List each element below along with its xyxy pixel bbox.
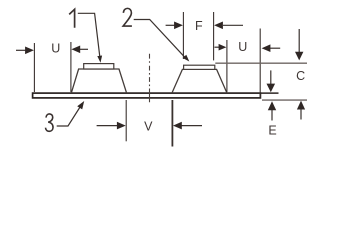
callout 1 : leader line	[78, 13, 100, 57]
dimension U (right) : extension lines	[226, 40, 228, 92]
callout 2 : digit	[123, 8, 132, 26]
dimension U (left) : right arrow	[80, 48, 88, 50]
package 2 lid	[184, 65, 215, 69]
dimension F : extension lines	[182, 12, 184, 59]
bar top extension line (right)	[260, 92, 278, 94]
carrier bar (item 3)	[33, 93, 261, 98]
C top reference line (lid top level)	[215, 62, 307, 64]
callout 2 : leader line	[134, 20, 186, 58]
dimension U (right) : left arrow	[215, 46, 220, 48]
dimension F : right arrow	[223, 24, 243, 26]
centerline (dash-dot) between packages	[149, 54, 151, 103]
svg-text:U: U	[238, 40, 247, 54]
dimension E : up arrow	[271, 110, 273, 121]
dimension V : right arrow	[182, 125, 203, 127]
callout 3 : digit	[46, 114, 54, 131]
dimension F : left arrow	[166, 24, 175, 26]
callout 1 : digit	[69, 9, 74, 28]
svg-text:C: C	[296, 69, 305, 83]
dimension U (left) : left arrow	[16, 49, 26, 51]
dimension V : left arrow	[97, 125, 117, 127]
svg-text:E: E	[268, 124, 276, 138]
bottom reference line (below bar)	[262, 99, 307, 101]
dimension C : up arrow	[300, 109, 302, 120]
svg-text:F: F	[195, 19, 203, 33]
dimension U (left) : extension lines	[33, 43, 35, 92]
callout 3 : leader line	[57, 106, 81, 127]
dimension V : extension lines	[125, 100, 127, 141]
package 1 lid	[84, 64, 114, 69]
svg-text:U: U	[51, 42, 60, 56]
svg-text:V: V	[144, 119, 153, 133]
package body 1 (trapezoid)	[71, 69, 126, 93]
dimension C : down arrow	[298, 29, 300, 52]
package body 2 (trapezoid)	[172, 69, 227, 93]
dimension E : down arrow	[270, 70, 272, 84]
dimension U (right) : right arrow	[270, 47, 280, 49]
